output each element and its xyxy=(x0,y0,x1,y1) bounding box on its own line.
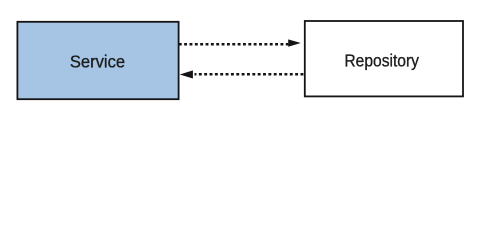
arrowhead left xyxy=(180,70,193,78)
label Service xyxy=(70,51,125,71)
wire dotted arrow Service to Repository xyxy=(179,43,288,46)
label Repository xyxy=(344,51,419,71)
arrowhead right xyxy=(288,39,301,46)
wire dotted arrow Repository to Service xyxy=(195,73,304,76)
box Service xyxy=(17,22,178,99)
svg-text:Repository: Repository xyxy=(344,51,419,71)
box Repository xyxy=(305,21,463,96)
svg-text:Service: Service xyxy=(70,51,125,71)
